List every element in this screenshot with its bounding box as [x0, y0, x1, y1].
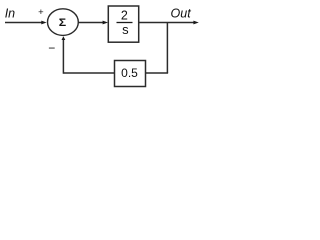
svg-text:0.5: 0.5	[121, 66, 138, 80]
wire branch to 0.5 block	[146, 72, 168, 74]
wire 0.5 block to left	[63, 72, 114, 74]
arrowhead into sum bottom	[62, 36, 66, 40]
arrowhead output	[193, 21, 198, 25]
background	[0, 0, 201, 94]
svg-text:s: s	[122, 22, 129, 37]
block 2/s	[108, 6, 138, 42]
wire feedback up	[62, 40, 64, 74]
arrowhead into summing junction	[41, 21, 46, 25]
wire block to output	[139, 22, 194, 24]
svg-text:Σ: Σ	[59, 16, 66, 28]
svg-text:Out: Out	[171, 7, 192, 21]
fraction bar	[117, 22, 133, 24]
svg-text:−: −	[48, 41, 55, 55]
arrowhead into 2/s block	[103, 21, 108, 25]
wire input	[5, 22, 42, 24]
wire feedback branch down	[166, 23, 168, 74]
svg-text:2: 2	[121, 8, 128, 22]
block 0.5	[115, 61, 146, 87]
wire sum to block	[78, 22, 103, 24]
summing junction U1	[48, 9, 79, 36]
svg-text:+: +	[38, 7, 44, 18]
svg-text:In: In	[5, 7, 15, 21]
